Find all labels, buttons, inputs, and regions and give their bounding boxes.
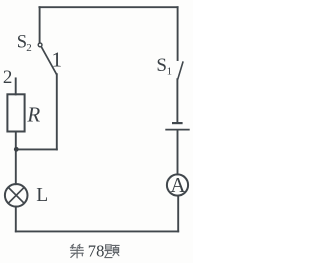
wire ammeter to battery (177, 130, 179, 174)
svg-text:2: 2 (26, 42, 32, 54)
ammeter A circle (167, 174, 188, 195)
contact 1 lead vertical (56, 74, 58, 149)
wire bottom horizontal (16, 230, 178, 232)
caption hanzi ti (题) (105, 245, 119, 258)
svg-text:A: A (170, 173, 186, 197)
wire top horizontal (39, 6, 177, 8)
wire horizontal node to contact1 (16, 148, 57, 150)
battery short plate (173, 122, 181, 124)
switch S1 blade (178, 62, 183, 79)
caption hanzi di (第) (70, 244, 83, 258)
wire battery top to S1 (176, 79, 178, 123)
switch S2 blade (41, 47, 56, 74)
junction node dot (14, 147, 19, 152)
lamp X stroke 1 (8, 187, 24, 203)
resistor R body (7, 94, 24, 131)
svg-text:2: 2 (3, 67, 13, 88)
lamp X stroke 2 (8, 187, 24, 203)
wire right vertical top to S1 (177, 7, 179, 60)
svg-text:78: 78 (88, 241, 105, 260)
lamp L circle (5, 184, 28, 207)
battery long plate (166, 129, 189, 131)
svg-text:S: S (156, 55, 167, 76)
svg-text:1: 1 (167, 66, 173, 78)
contact 2 lead vertical (15, 78, 17, 94)
wire left-top vertical to S2 pivot (39, 7, 41, 43)
wire lamp bottom (15, 207, 17, 232)
switch S2 pivot circle (38, 43, 42, 47)
wire resistor bottom to node (15, 132, 17, 150)
wire node down to lamp (15, 149, 17, 184)
svg-text:L: L (36, 185, 48, 206)
wire right vertical bottom to ammeter (177, 196, 179, 232)
svg-text:1: 1 (51, 47, 62, 71)
svg-text:R: R (26, 102, 40, 126)
